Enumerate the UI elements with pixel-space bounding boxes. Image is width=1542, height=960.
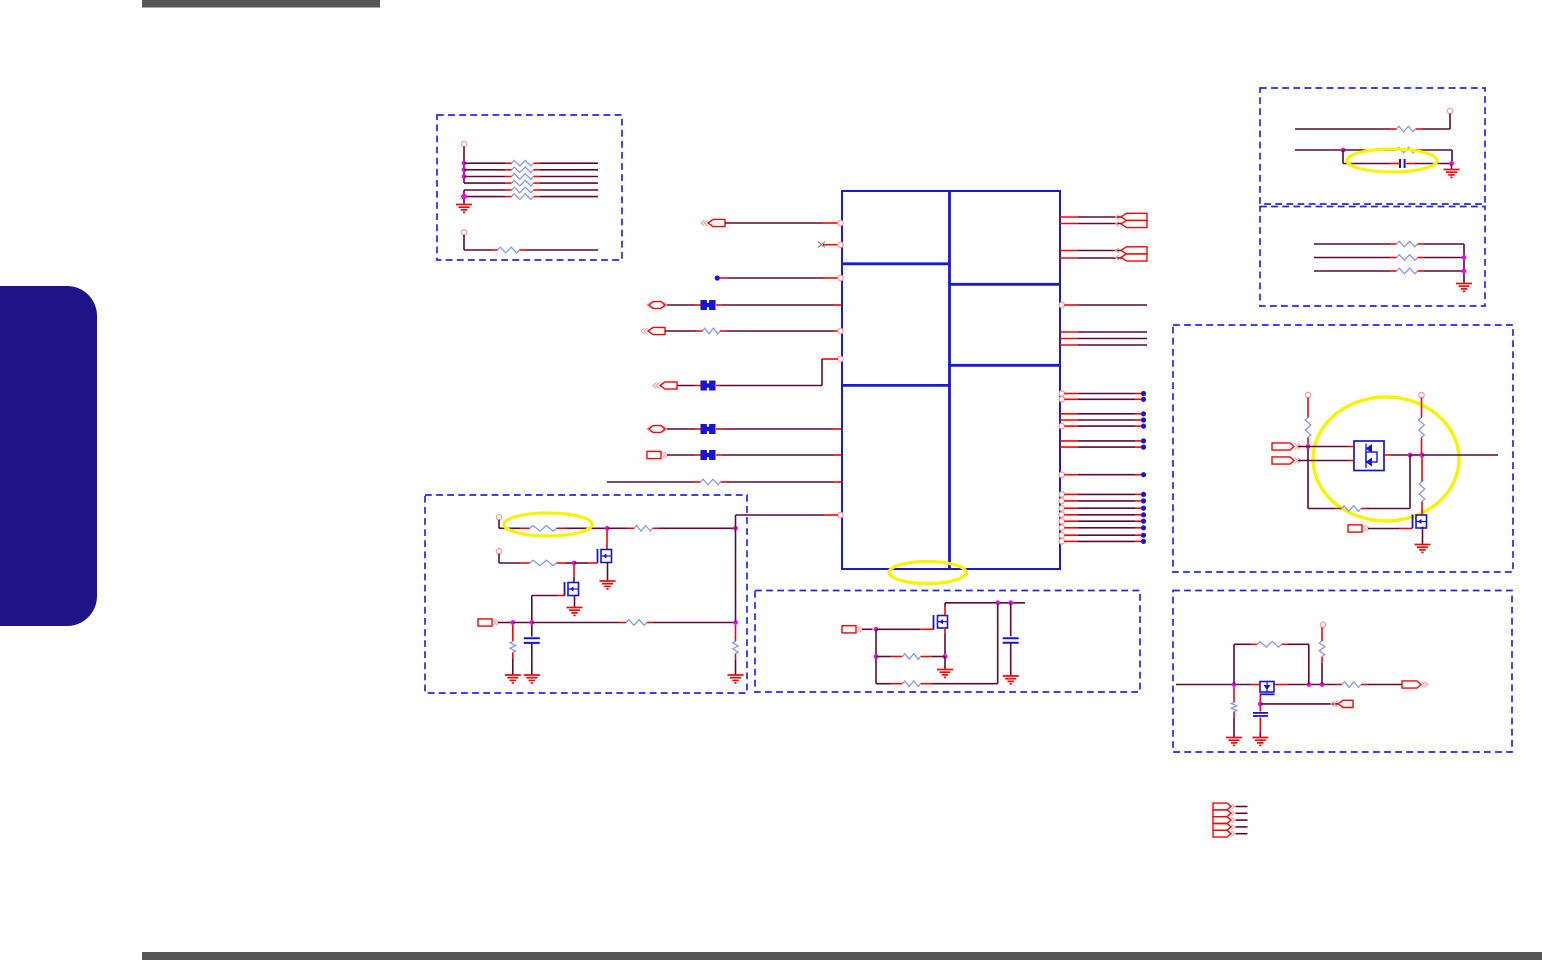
resistor R13 <box>1390 255 1424 261</box>
port VOUT <box>1402 681 1428 688</box>
wire stub <box>1060 419 1078 421</box>
resistor R7 <box>491 247 526 253</box>
IC U1 right divider 1 <box>950 283 1061 286</box>
wire <box>1288 684 1336 686</box>
wire <box>464 182 505 184</box>
wire stub <box>1348 460 1354 462</box>
net dot <box>1141 391 1146 396</box>
port HPD_B <box>1272 457 1301 464</box>
resistor R4 <box>505 180 540 186</box>
wire stub <box>1275 684 1288 686</box>
junction <box>529 620 534 625</box>
port SMB_DAT <box>647 426 667 433</box>
wire stub <box>716 385 720 387</box>
ferrite bead FB2 <box>701 381 716 391</box>
junction <box>874 654 879 659</box>
ground <box>1226 738 1242 746</box>
pin <box>1059 512 1064 517</box>
dashed box F - load switch <box>755 591 1140 693</box>
dashed box D - panel detect circuit <box>1173 325 1513 572</box>
wire stub <box>822 222 838 224</box>
wire stub <box>573 565 575 577</box>
capacitor C4 <box>1253 713 1268 716</box>
mosfet Q3 <box>1413 515 1427 529</box>
resistor R16 <box>1419 411 1425 444</box>
wire <box>1295 149 1343 151</box>
wire stub <box>695 304 701 306</box>
wire <box>1236 819 1248 821</box>
wire <box>677 385 695 387</box>
wire stub <box>1421 398 1423 412</box>
junction <box>1449 161 1454 166</box>
wire stub <box>1064 520 1078 522</box>
wire stub <box>944 607 946 616</box>
wire <box>499 527 521 529</box>
wire <box>1307 449 1309 509</box>
junction <box>1008 600 1013 605</box>
resistor R15 <box>1305 411 1311 444</box>
resistor R20 <box>628 526 659 532</box>
wire <box>540 162 598 164</box>
highlight ellipse on C1 <box>1347 149 1437 172</box>
wire stub <box>695 428 701 430</box>
ground <box>1252 738 1268 746</box>
wire <box>526 249 598 251</box>
mosfet Q4 <box>934 615 948 630</box>
wire stub <box>1060 223 1078 225</box>
wire <box>862 628 873 630</box>
wire <box>464 169 505 171</box>
resistor R30 <box>1231 696 1237 718</box>
pin 2 <box>838 242 843 247</box>
node VCC dot <box>715 275 720 280</box>
wire <box>1410 454 1422 456</box>
wire stub <box>1060 216 1078 218</box>
wire <box>531 644 533 675</box>
wire stub <box>1135 493 1141 495</box>
ground <box>1444 170 1460 178</box>
no-connect X <box>818 242 825 248</box>
pin <box>1059 492 1064 497</box>
pin <box>1059 519 1064 524</box>
wire stub <box>1421 508 1423 515</box>
ferrite bead FB1 <box>701 300 716 310</box>
wire stub <box>720 277 728 279</box>
wire stub <box>1135 425 1141 427</box>
wire stub <box>1307 398 1309 412</box>
wire <box>1295 128 1390 130</box>
junction <box>462 167 467 172</box>
wire stub <box>1251 684 1260 686</box>
junction <box>1306 682 1311 687</box>
wire <box>540 176 598 178</box>
resistor R17 <box>1419 475 1425 508</box>
wire stub <box>823 244 838 246</box>
resistor R8 <box>696 328 727 334</box>
wire <box>1451 164 1453 170</box>
pin <box>1059 391 1064 396</box>
ground <box>728 675 744 683</box>
ground <box>456 205 472 213</box>
wire <box>1078 413 1135 415</box>
wire stub <box>1064 398 1078 400</box>
resistor R28 <box>1251 642 1289 648</box>
pin 1 <box>838 220 843 225</box>
junction <box>1306 444 1311 449</box>
wire stub <box>695 385 701 387</box>
net dot <box>1141 445 1146 450</box>
wire <box>1414 163 1452 165</box>
wire stub <box>1064 527 1078 529</box>
wire <box>463 190 465 205</box>
wire <box>1233 644 1235 684</box>
wire <box>512 659 514 675</box>
wire <box>1078 338 1147 340</box>
wire <box>932 656 945 658</box>
wire stub <box>716 304 722 306</box>
wire stub <box>1135 446 1141 448</box>
wire <box>1424 257 1464 259</box>
resistor R14 <box>1390 268 1424 274</box>
wire <box>1078 216 1122 218</box>
wire stub <box>944 628 946 633</box>
wire stub <box>1064 507 1078 509</box>
wire stub <box>1135 520 1141 522</box>
resistor R26 <box>891 681 931 687</box>
port DDC pair B <box>1116 247 1148 261</box>
wire stub <box>834 330 838 332</box>
wire stub <box>1390 163 1399 165</box>
pin P4 <box>1305 392 1310 397</box>
wire stub <box>1064 304 1078 306</box>
IC U1 left divider 2 <box>842 384 950 387</box>
wire <box>1260 703 1338 705</box>
wire stub <box>1135 514 1141 516</box>
IC U1 right divider 2 <box>950 364 1061 367</box>
capacitor C3 <box>1003 638 1019 643</box>
wire <box>607 563 609 582</box>
wire stub <box>822 277 838 279</box>
resistor R21 <box>521 560 566 566</box>
wire <box>1321 663 1323 685</box>
wire <box>1259 732 1261 737</box>
wire stub <box>834 428 841 430</box>
wire stub <box>588 562 597 564</box>
wire stub <box>716 454 722 456</box>
wire <box>1078 514 1135 516</box>
pin 10 <box>838 512 843 517</box>
resistor R11 <box>1390 147 1422 153</box>
wire <box>1078 493 1135 495</box>
ferrite bead FB3 <box>701 424 716 434</box>
wire stub <box>735 625 737 635</box>
net dot <box>1141 472 1146 477</box>
resistor R3 <box>505 174 540 180</box>
wire <box>1078 393 1135 395</box>
wire stub <box>920 628 934 630</box>
ground <box>1456 284 1472 292</box>
wire stub <box>1421 444 1423 455</box>
junction <box>733 620 738 625</box>
ground <box>937 670 953 678</box>
net dot <box>1141 411 1146 416</box>
wire <box>1078 331 1147 333</box>
wire stub <box>1135 500 1141 502</box>
wire <box>464 162 505 164</box>
resistor R19 <box>521 526 566 532</box>
wire stub <box>1064 393 1078 395</box>
junction <box>874 627 879 632</box>
wire <box>945 602 1025 604</box>
highlight ellipse on U1 bottom <box>889 562 966 584</box>
wire <box>1298 460 1348 462</box>
pin <box>1059 533 1064 538</box>
dashed box G - output sense <box>1173 591 1512 753</box>
wire <box>876 656 891 658</box>
junction <box>1258 702 1263 707</box>
wire <box>1422 454 1498 456</box>
wire <box>667 304 695 306</box>
wire stub <box>1135 393 1141 395</box>
wire <box>944 657 946 670</box>
dashed box A - pull-up resistor bank <box>437 115 622 260</box>
wire stub <box>1060 257 1078 259</box>
net dot <box>1141 424 1146 429</box>
wire <box>1078 250 1122 252</box>
dashed box B - backlight filter <box>1260 88 1485 204</box>
net dot <box>1141 498 1146 503</box>
port DDC pair A <box>1116 213 1148 227</box>
net dot <box>1141 519 1146 524</box>
wire <box>1314 257 1390 259</box>
wire stub <box>1135 507 1141 509</box>
wire <box>513 622 532 624</box>
wire <box>1308 508 1335 510</box>
junction <box>1420 453 1425 458</box>
junction <box>462 174 467 179</box>
wire <box>1391 454 1410 456</box>
gate wire <box>1259 694 1261 704</box>
wire <box>1078 425 1135 427</box>
net dot <box>1141 512 1146 517</box>
pin <box>1059 525 1064 530</box>
wire <box>1298 446 1348 448</box>
wire <box>1078 304 1147 306</box>
wire <box>607 481 694 483</box>
wire <box>540 182 598 184</box>
port stack - 5 output ports <box>1213 803 1235 837</box>
wire <box>1236 806 1248 808</box>
wire <box>540 196 598 198</box>
junction <box>461 194 467 200</box>
wire <box>667 428 695 430</box>
resistor R23 <box>510 635 516 659</box>
wire <box>566 527 608 529</box>
port HPD_A <box>1272 443 1301 450</box>
net dot <box>1141 492 1146 497</box>
wire <box>1422 149 1452 151</box>
pin P5 <box>1419 392 1424 397</box>
wire <box>725 222 822 224</box>
wire <box>1078 257 1122 259</box>
capacitor C2 <box>524 638 540 643</box>
wire <box>1422 128 1450 130</box>
wire <box>722 304 834 306</box>
wire stub <box>1321 627 1323 634</box>
wire <box>1236 812 1248 814</box>
wire stub <box>834 481 841 483</box>
wire <box>653 622 735 624</box>
junction <box>572 561 577 566</box>
wire <box>1314 243 1390 245</box>
wire <box>498 622 513 624</box>
wire stub <box>1064 514 1078 516</box>
pin P3 <box>1447 108 1452 113</box>
wire <box>464 249 491 251</box>
wire <box>464 196 505 198</box>
wire <box>1422 527 1424 545</box>
junction <box>1408 453 1413 458</box>
wire stub <box>1421 457 1423 475</box>
wire stub <box>1060 331 1078 333</box>
wire stub <box>1060 413 1078 415</box>
port PWR_IN <box>701 219 725 226</box>
wire <box>659 527 736 529</box>
resistor R27 <box>1336 682 1368 688</box>
wire <box>1368 684 1403 686</box>
wire <box>1314 270 1390 272</box>
wire stub <box>824 514 838 516</box>
wire stub <box>1135 419 1141 421</box>
wire <box>875 629 877 683</box>
wire <box>1078 440 1135 442</box>
wire stub <box>1135 474 1141 476</box>
net dot <box>1141 506 1146 511</box>
wire stub <box>695 454 701 456</box>
wire stub <box>1399 528 1412 530</box>
net dot <box>1141 438 1146 443</box>
wire <box>722 428 834 430</box>
wire <box>1078 540 1135 542</box>
wire stub <box>512 625 514 635</box>
wire <box>1343 163 1390 165</box>
wire <box>463 235 465 250</box>
mosfet Q1 <box>598 549 612 563</box>
wire <box>540 189 598 191</box>
wire stub <box>1064 534 1078 536</box>
wire <box>665 330 696 332</box>
wire <box>566 562 575 564</box>
junction <box>605 526 610 531</box>
wire stub <box>834 454 841 456</box>
wire <box>1451 150 1453 164</box>
wire <box>1234 643 1251 645</box>
wire <box>667 454 695 456</box>
pin 5 <box>838 328 843 333</box>
wire <box>997 603 999 684</box>
wire <box>1343 149 1390 151</box>
wire <box>728 277 822 279</box>
left navy chapter tab <box>0 286 97 626</box>
junction <box>1462 269 1467 274</box>
wire <box>821 359 823 386</box>
wire stub <box>557 595 565 597</box>
wire <box>1424 270 1464 272</box>
ground <box>505 675 521 683</box>
pin <box>1059 506 1064 511</box>
net dot <box>1141 525 1146 530</box>
wire stub <box>1135 398 1141 400</box>
wire stub <box>1384 454 1391 456</box>
wire <box>498 554 500 563</box>
wire <box>1463 244 1465 284</box>
resistor R6 <box>505 194 540 200</box>
pin P6 <box>496 515 501 520</box>
wire <box>573 577 575 583</box>
port GATE_EN <box>1348 525 1369 532</box>
wire <box>574 596 576 608</box>
wire <box>1078 534 1135 536</box>
wire <box>531 596 533 623</box>
wire <box>532 595 557 597</box>
pin <box>1059 397 1064 402</box>
pin P7 <box>496 549 501 554</box>
junction <box>1320 682 1325 687</box>
wire <box>944 603 946 607</box>
wire <box>464 189 505 191</box>
wire <box>1078 500 1135 502</box>
resistor R1 <box>505 160 540 166</box>
IC U1 outline <box>842 191 1060 569</box>
wire <box>1010 643 1012 675</box>
wire <box>463 147 465 184</box>
wire stub <box>1259 706 1261 711</box>
wire stub <box>1135 413 1141 415</box>
resistor R25 <box>891 654 931 660</box>
pin P2 <box>461 230 466 235</box>
wire stub <box>1060 440 1078 442</box>
wire <box>1288 643 1309 645</box>
wire <box>1078 474 1135 476</box>
wire <box>499 562 521 564</box>
IC U1 center divider <box>948 191 951 569</box>
ground <box>567 608 583 616</box>
highlight ellipse on D1 network <box>1313 397 1459 521</box>
capacitor C1 <box>1400 159 1405 168</box>
wire stub <box>1064 474 1078 476</box>
port EN <box>647 451 668 458</box>
mosfet Q5 <box>1260 682 1275 695</box>
wire stub <box>1135 527 1141 529</box>
IC U1 left divider 1 <box>842 262 950 265</box>
wire stub <box>1259 718 1261 733</box>
junction <box>1232 682 1237 687</box>
resistor R9 <box>694 479 727 485</box>
wire stub <box>822 358 838 360</box>
wire <box>722 454 834 456</box>
resistor R24 <box>733 635 739 660</box>
wire stub <box>1233 687 1235 696</box>
wire stub <box>1060 446 1078 448</box>
pin 20 <box>1059 302 1064 307</box>
pin <box>1059 539 1064 544</box>
ground <box>600 581 616 589</box>
wire <box>1368 528 1399 530</box>
dashed box E - power switch <box>425 495 747 693</box>
wire <box>1078 446 1135 448</box>
wire <box>1409 455 1411 509</box>
port FB <box>1331 700 1353 707</box>
